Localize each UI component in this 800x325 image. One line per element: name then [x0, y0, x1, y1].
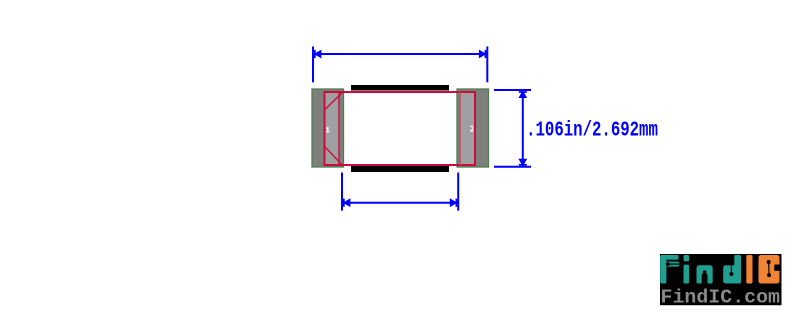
C notch, dots and trace: [774, 265, 780, 271]
FindIC logo background (black box): [660, 254, 782, 305]
letter C: [759, 255, 780, 284]
letter I: [746, 255, 752, 284]
pad 1 paste overlap (lighter gray): [324, 92, 339, 165]
d dot and trace: [729, 272, 733, 276]
dimension: inner pad span (bottom), extension lines, line and arrows: [342, 173, 458, 211]
F arm dot and trace: [666, 262, 670, 266]
letter F: [660, 255, 666, 284]
pad 2 inner edge line (dull red): [459, 92, 461, 165]
terminal bar top (black): [351, 85, 449, 91]
letter d: [723, 265, 741, 283]
pin 2 number label: [470, 126, 473, 132]
pin 1 chamfer diagonal bottom: [325, 147, 342, 165]
pad 2 paste overlap (lighter gray): [460, 92, 475, 165]
dimension: height (right side), extension lines, line and arrows: [494, 90, 531, 167]
FindIC.com caption (gray): [661, 286, 781, 308]
pad 2 (right land pad, gray with green outline): [457, 89, 489, 167]
letter i: [684, 255, 690, 261]
letter n: [697, 265, 713, 283]
FindIC logo circuit-trace details (black dots and lines): [666, 256, 780, 284]
component body outline (red rectangle): [325, 92, 476, 165]
pin 1 number label: [326, 127, 330, 132]
FindIC logo word: Find (teal stylized letters): [660, 255, 741, 284]
FindIC logo word: IC (orange stylized letters): [746, 255, 779, 284]
n gap, dot and trace: [702, 275, 708, 284]
svg-text:FindIC.com: FindIC.com: [661, 286, 781, 308]
terminal bar bottom (black): [351, 166, 449, 172]
pad 1 inner edge line (red): [338, 92, 340, 165]
pad 1 (left land pad, gray with green outline): [312, 89, 344, 167]
dimension: overall width (top), extension lines, line and arrows: [313, 47, 487, 83]
pin 1 chamfer diagonal top: [325, 93, 342, 110]
svg-text:.106in/2.692mm: .106in/2.692mm: [526, 117, 658, 142]
dimension value label .106in/2.692mm: [526, 117, 658, 142]
